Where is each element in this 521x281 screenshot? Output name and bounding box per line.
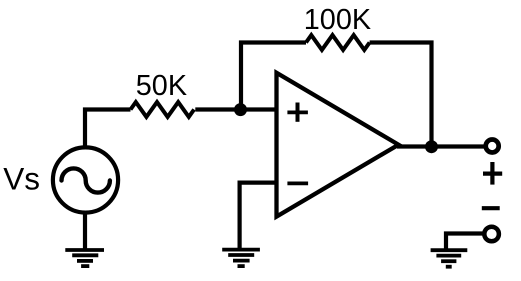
output node junction dot bbox=[425, 140, 438, 153]
resistor R2 100K bbox=[306, 35, 370, 50]
op-amp + input marker bbox=[287, 111, 308, 115]
ground (negative terminal) bbox=[431, 250, 468, 267]
svg-text:50K: 50K bbox=[136, 70, 187, 102]
feedback wire left vertical and top left segment bbox=[241, 43, 306, 110]
resistor R1 50K bbox=[131, 102, 195, 117]
ground (op-amp inverting input) bbox=[222, 250, 260, 267]
node A junction dot bbox=[234, 103, 247, 116]
label + (output polarity) bbox=[483, 172, 502, 176]
op-amp - input marker bbox=[287, 181, 308, 185]
feedback wire top right segment and right vertical bbox=[370, 43, 432, 147]
wire op-amp output to terminal bbox=[397, 144, 486, 148]
op-amp U1 triangle bbox=[277, 73, 399, 217]
negative terminal open circle bbox=[484, 227, 499, 242]
wire node A to op-amp + input bbox=[241, 107, 278, 111]
output terminal open circle bbox=[486, 140, 499, 153]
wire negative terminal to ground bbox=[446, 234, 483, 250]
voltage source Vs circle bbox=[53, 147, 118, 212]
voltage source sine wave bbox=[62, 168, 110, 192]
wire source top to 50K bbox=[85, 110, 131, 148]
svg-text:100K: 100K bbox=[304, 4, 371, 36]
svg-text:Vs: Vs bbox=[3, 161, 40, 197]
wire 50K to node A bbox=[195, 107, 240, 111]
wire op-amp - input to ground bbox=[240, 183, 277, 250]
wire source bottom to ground bbox=[83, 212, 87, 250]
ground (source) bbox=[65, 250, 104, 266]
label - (output polarity) bbox=[482, 206, 500, 210]
